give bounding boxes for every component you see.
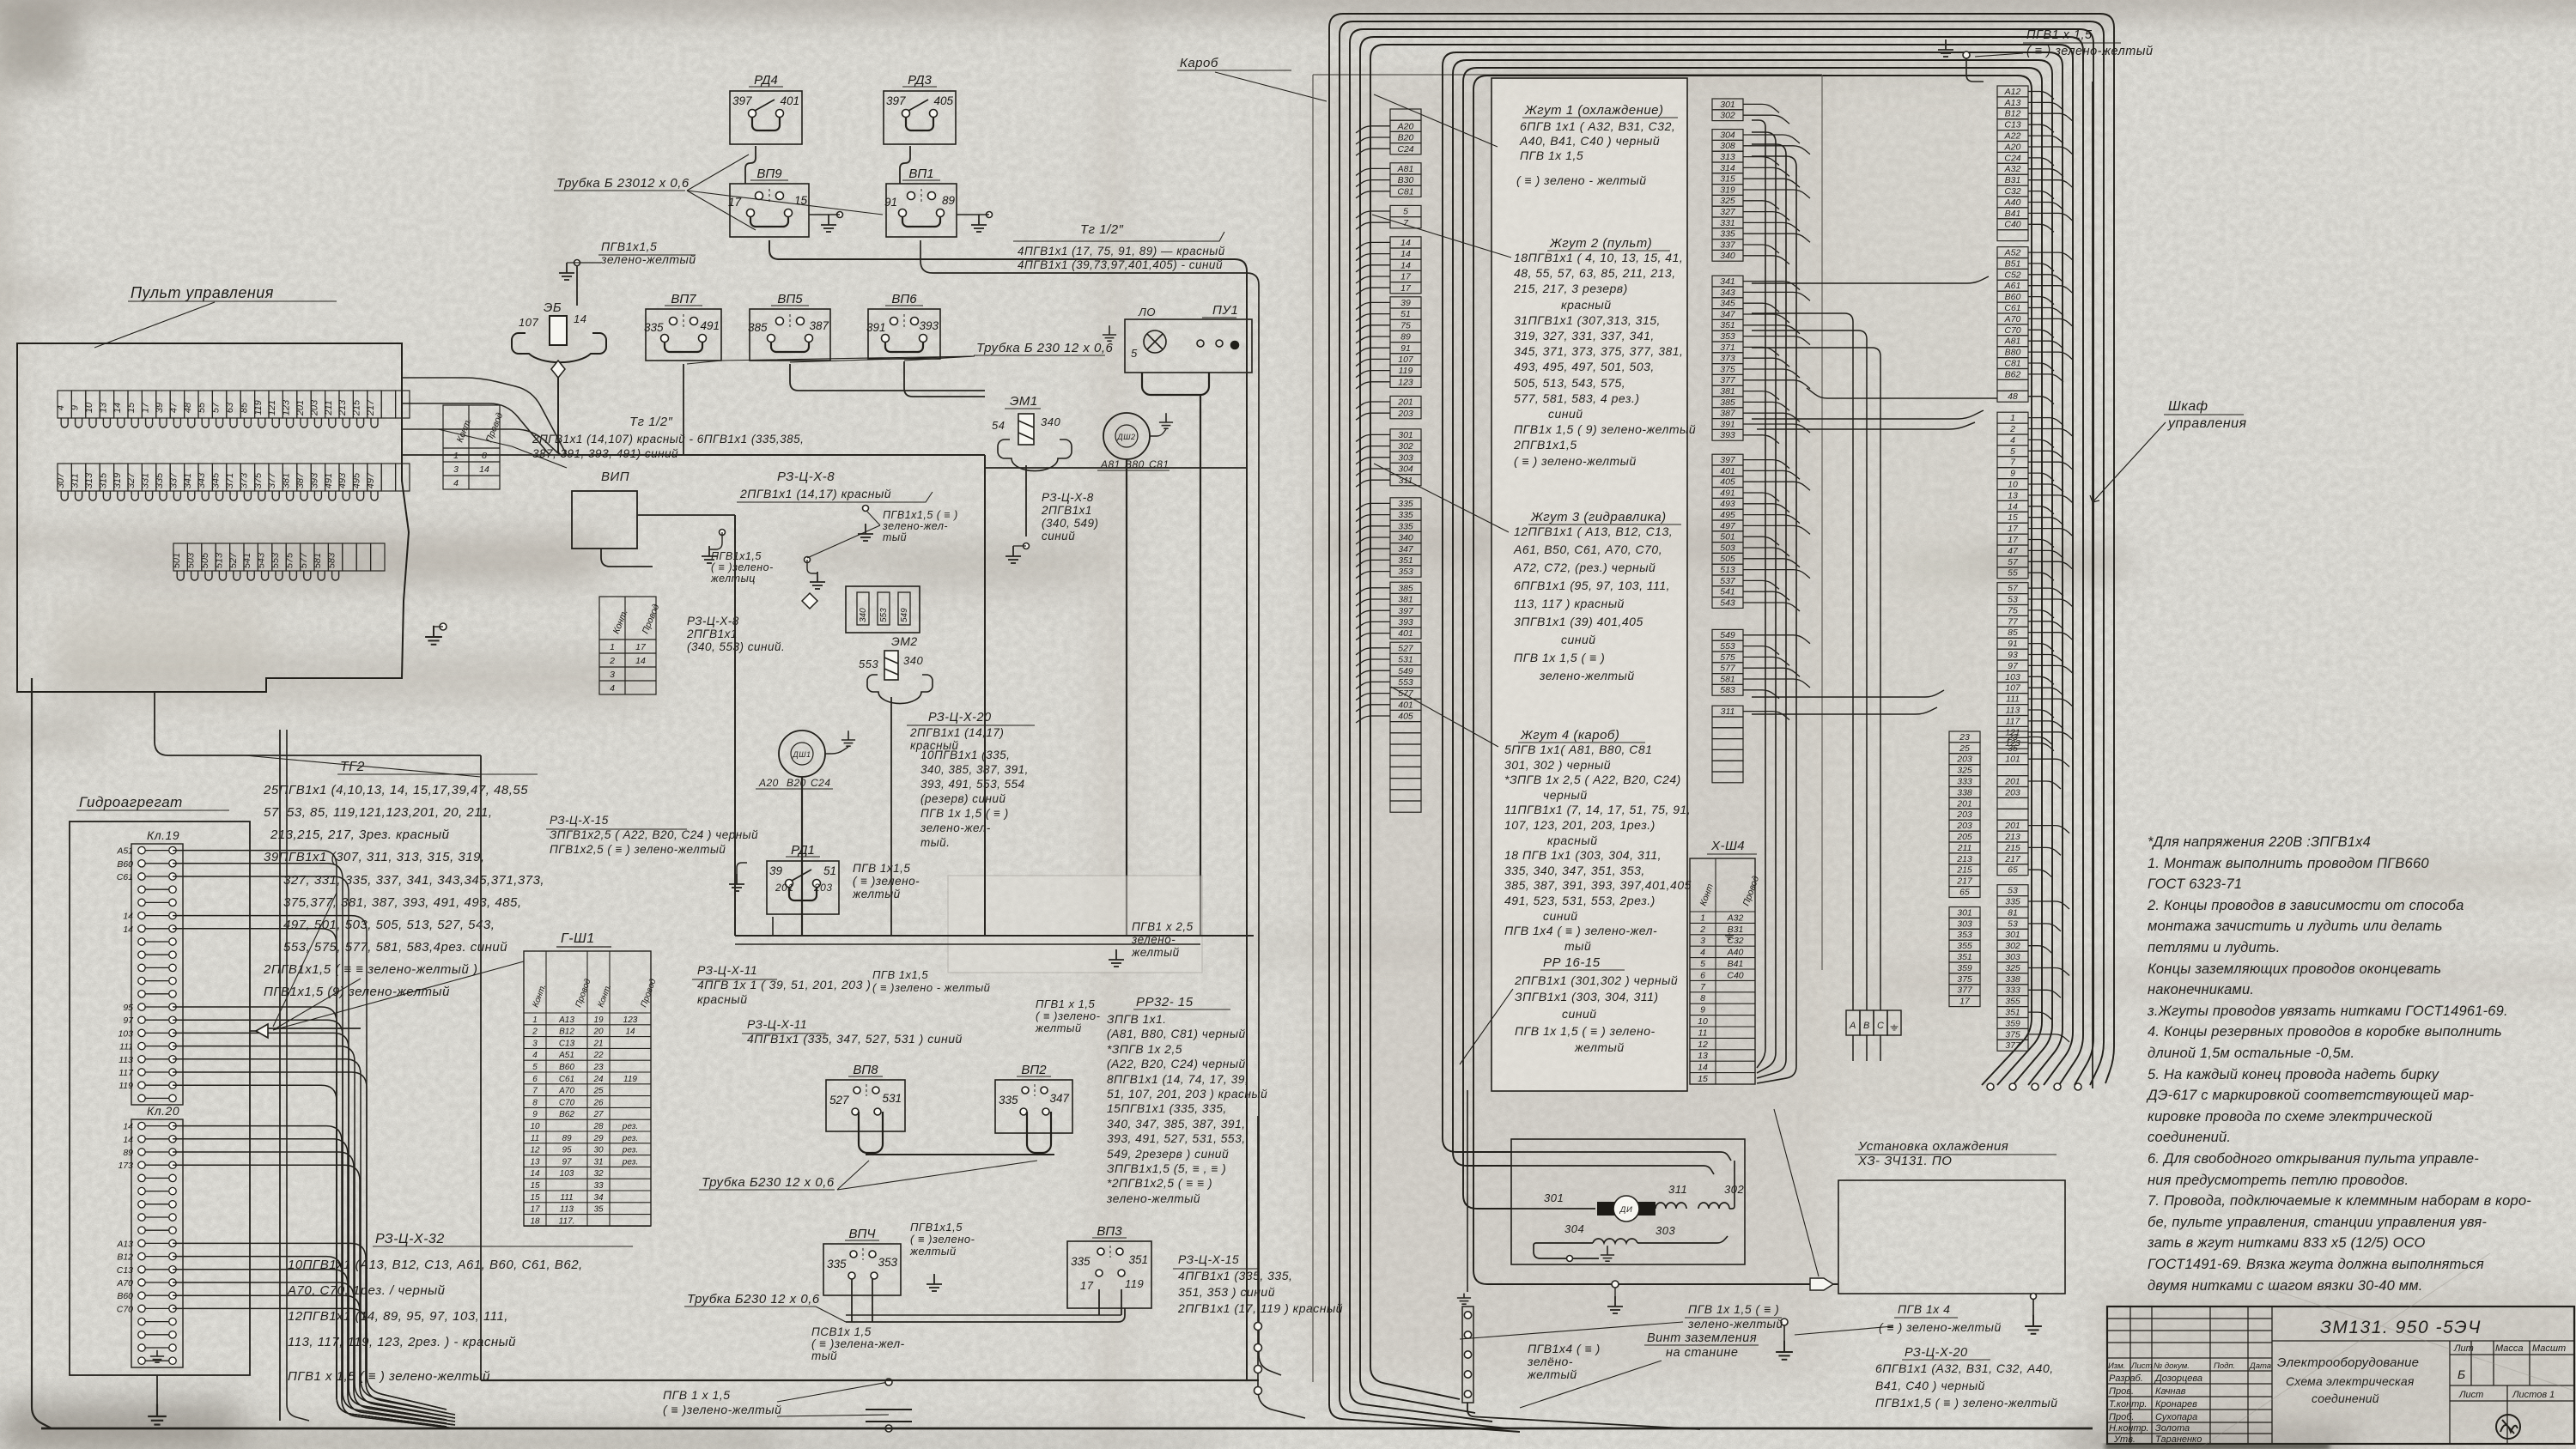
wire PU1 down xyxy=(1200,395,1201,936)
label Korob xyxy=(1177,56,1291,70)
svg-text:111: 111 xyxy=(560,1193,573,1203)
svg-text:С40: С40 xyxy=(1727,970,1743,980)
svg-text:Концы заземляющих проводов: Концы заземляющих проводов оконцевать xyxy=(2148,961,2441,977)
svg-text:345: 345 xyxy=(1720,299,1735,309)
svg-text:зелено-желтый: зелено-желтый xyxy=(1539,669,1635,682)
svg-text:201: 201 xyxy=(1956,798,1972,809)
text harness 4 xyxy=(1504,743,1692,953)
svg-text:23: 23 xyxy=(592,1063,604,1072)
svg-text:31ПГВ1х1 (307,313, 315,: 31ПГВ1х1 (307,313, 315, xyxy=(1514,313,1661,327)
leader Shkaf xyxy=(2090,422,2166,502)
svg-text:6ПГВ1х1 (95, 97, 103, 111,: 6ПГВ1х1 (95, 97, 103, 111, xyxy=(1514,579,1670,592)
svg-text:( ≡ )зелено-: ( ≡ )зелено- xyxy=(1036,1009,1101,1022)
svg-text:РД4: РД4 xyxy=(754,73,778,88)
wire bundle to chevron xyxy=(268,1028,361,1029)
svg-text:В51: В51 xyxy=(2005,258,2021,269)
svg-text:Б: Б xyxy=(2458,1367,2465,1381)
svg-text:ЗМ131. 950 -5ЭЧ: ЗМ131. 950 -5ЭЧ xyxy=(2320,1318,2482,1337)
svg-text:57, 53, 85, 119,121,123,201, 2: 57, 53, 85, 119,121,123,201, 20, 211, xyxy=(264,805,493,820)
ground xyxy=(2025,1315,2042,1334)
svg-text:РЗ-Ц-Х-11: РЗ-Ц-Х-11 xyxy=(697,963,757,977)
node EB gnd xyxy=(574,260,580,266)
svg-text:335: 335 xyxy=(827,1258,847,1270)
node xyxy=(720,530,726,536)
svg-text:327: 327 xyxy=(126,472,137,488)
svg-text:57: 57 xyxy=(2008,557,2019,567)
svg-text:3: 3 xyxy=(610,670,615,680)
svg-text:тый: тый xyxy=(883,531,907,543)
svg-text:203: 203 xyxy=(1956,755,1972,765)
svg-text:В31: В31 xyxy=(2005,175,2021,185)
hinge bottom curve xyxy=(1467,1403,1700,1429)
wire left vertical bus xyxy=(32,678,52,1428)
svg-text:25: 25 xyxy=(592,1087,604,1096)
svg-text:211: 211 xyxy=(1957,843,1972,853)
text R3C X8 xyxy=(739,487,891,500)
label Trubka B230 12x0.6 mid xyxy=(974,341,1114,355)
leader top right xyxy=(1975,53,2023,57)
svg-text:В60: В60 xyxy=(559,1063,574,1072)
terminal column korob right xyxy=(1712,99,1743,783)
vertical bundle right of korob column to X-Sh4 xyxy=(1752,120,1796,1083)
svg-text:2ПГВ1х1 (17, 119 ) красный: 2ПГВ1х1 (17, 119 ) красный xyxy=(1177,1301,1343,1315)
svg-text:377: 377 xyxy=(267,472,277,488)
svg-text:ВП2: ВП2 xyxy=(1021,1063,1047,1077)
svg-text:549: 549 xyxy=(900,608,909,622)
svg-text:ДШ2: ДШ2 xyxy=(1116,433,1135,441)
svg-text:54: 54 xyxy=(992,419,1005,432)
svg-text:307: 307 xyxy=(56,472,66,488)
svg-text:81: 81 xyxy=(2008,907,2018,918)
svg-text:33: 33 xyxy=(593,1181,604,1191)
svg-text:117: 117 xyxy=(2006,716,2021,726)
wire PU1 loop xyxy=(1142,373,1209,395)
svg-text:желтый: желтый xyxy=(909,1245,957,1258)
svg-text:15: 15 xyxy=(530,1181,540,1191)
svg-text:302: 302 xyxy=(1720,111,1735,121)
wire x560 down xyxy=(480,755,482,1380)
svg-text:12ПГВ1х1 (14, 89, 95, 9: 12ПГВ1х1 (14, 89, 95, 97, 103, 111, xyxy=(288,1309,508,1324)
svg-text:327, 331, 335, 337, 341, 343,3: 327, 331, 335, 337, 341, 343,345,371,373… xyxy=(283,873,544,888)
label Pult upravleniya xyxy=(128,284,337,301)
text block xyxy=(2146,834,2531,1294)
svg-text:405: 405 xyxy=(1398,712,1413,722)
svg-text:575: 575 xyxy=(1720,652,1735,663)
svg-text:10ПГВ1х1 (335,: 10ПГВ1х1 (335, xyxy=(920,749,1010,761)
text R3CX15 bottom xyxy=(1177,1252,1343,1315)
svg-text:ния предусмотреть петлю про: ния предусмотреть петлю проводов. xyxy=(2148,1173,2409,1188)
svg-text:304: 304 xyxy=(1398,464,1413,475)
svg-text:53: 53 xyxy=(2008,595,2018,605)
svg-text:75: 75 xyxy=(1400,320,1411,330)
svg-text:15: 15 xyxy=(1698,1074,1708,1084)
label R3-C-X-20 bottom xyxy=(1902,1346,1990,1360)
text block xyxy=(920,749,1029,849)
leader lines cluster xyxy=(807,512,880,558)
svg-text:23: 23 xyxy=(1959,732,1970,743)
svg-text:217: 217 xyxy=(2004,854,2021,864)
svg-text:401: 401 xyxy=(1398,700,1413,710)
text Tg mid xyxy=(532,433,804,460)
svg-text:333: 333 xyxy=(2005,985,2020,996)
svg-text:ПГВ 1х1,5: ПГВ 1х1,5 xyxy=(853,862,910,875)
title block frame xyxy=(2107,1307,2574,1444)
svg-text:203: 203 xyxy=(813,882,833,894)
svg-text:3: 3 xyxy=(532,1039,538,1048)
label TG2 xyxy=(337,760,538,774)
svg-text:*ЗПГВ 1х 2,5 ( А22, В20, С24): *ЗПГВ 1х 2,5 ( А22, В20, С24) xyxy=(1504,773,1681,786)
svg-text:495: 495 xyxy=(1720,510,1735,520)
node xyxy=(837,212,843,218)
svg-text:Дозорцева: Дозорцева xyxy=(2154,1373,2202,1384)
svg-text:В41: В41 xyxy=(2005,209,2021,219)
svg-text:А13: А13 xyxy=(558,1016,574,1025)
svg-text:(А22, В20, С24) черный: (А22, В20, С24) черный xyxy=(1107,1058,1246,1070)
svg-text:соединений.: соединений. xyxy=(2148,1130,2231,1145)
svg-text:С24: С24 xyxy=(2004,153,2020,163)
text harness 2 xyxy=(1513,251,1696,468)
svg-text:373: 373 xyxy=(1720,354,1735,364)
svg-text:491, 523, 531, 553, 2рез.): 491, 523, 531, 553, 2рез.) xyxy=(1504,894,1656,907)
svg-text:ПГВ1х 1,5 ( 9) зелено-желтый: ПГВ1х 1,5 ( 9) зелено-желтый xyxy=(1514,422,1696,436)
svg-text:205: 205 xyxy=(1956,832,1972,842)
svg-text:325: 325 xyxy=(1957,766,1972,776)
svg-text:381: 381 xyxy=(1398,595,1413,605)
hydro unit (Gidroagregat) outline xyxy=(70,822,250,1375)
text R3CX8 blue xyxy=(1041,491,1099,543)
crease diagonal over title area xyxy=(2198,1253,2574,1449)
ground xyxy=(927,1274,942,1291)
svg-text:13: 13 xyxy=(2008,490,2018,500)
label harness 2 xyxy=(1547,236,1670,251)
terminal strip Kl.20 xyxy=(131,1119,183,1367)
svg-text:С70: С70 xyxy=(559,1098,575,1107)
text block xyxy=(600,239,696,266)
svg-text:ПГВ 1х 1,5 ( ≡ ): ПГВ 1х 1,5 ( ≡ ) xyxy=(920,807,1009,820)
svg-text:ПГВ1х1,5 (9) зелено-желтый: ПГВ1х1,5 (9) зелено-желтый xyxy=(264,985,450,999)
wire DSh2 down xyxy=(1126,459,1127,936)
svg-text:ПГВ1х2,5 ( ≡ ) зелено-желтый: ПГВ1х2,5 ( ≡ ) зелено-желтый xyxy=(550,843,726,856)
text PGV zeleno-zheltyi 32 xyxy=(288,1369,490,1384)
svg-text:304: 304 xyxy=(1564,1222,1584,1235)
svg-text:89: 89 xyxy=(942,194,956,207)
node xyxy=(1567,1256,1573,1262)
text PGV cluster xyxy=(710,550,774,585)
wire y1345 under VP8-VP2 xyxy=(866,1154,1054,1155)
svg-text:2: 2 xyxy=(1699,925,1705,935)
terminal strip pult row 3 xyxy=(173,543,385,571)
svg-text:121: 121 xyxy=(267,400,277,415)
w xyxy=(737,863,747,874)
svg-text:А13: А13 xyxy=(2004,98,2021,108)
text block xyxy=(2277,1355,2419,1370)
svg-text:491: 491 xyxy=(700,319,720,332)
svg-text:В41: В41 xyxy=(1728,959,1744,969)
svg-text:53: 53 xyxy=(2008,886,2018,896)
svg-text:Кронарев: Кронарев xyxy=(2155,1399,2197,1410)
svg-text:А20: А20 xyxy=(2004,142,2021,152)
svg-text:Качнав: Качнав xyxy=(2155,1386,2186,1397)
svg-text:12: 12 xyxy=(1698,1040,1708,1050)
svg-text:20: 20 xyxy=(592,1028,604,1037)
svg-text:401: 401 xyxy=(1398,628,1413,639)
svg-text:493: 493 xyxy=(337,472,348,488)
svg-text:( ≡ )зелено-желтый: ( ≡ )зелено-желтый xyxy=(663,1403,781,1416)
svg-text:53: 53 xyxy=(2008,919,2018,929)
svg-text:А81: А81 xyxy=(1397,164,1414,174)
w xyxy=(1150,429,1166,436)
svg-text:63: 63 xyxy=(225,402,235,413)
svg-text:на станине: на станине xyxy=(1666,1346,1738,1360)
svg-text:Изм.: Изм. xyxy=(2108,1361,2125,1371)
text PGV mid1 xyxy=(882,509,958,543)
svg-text:зелено-желтый: зелено-желтый xyxy=(1106,1192,1200,1205)
svg-text:335: 335 xyxy=(644,321,664,334)
svg-text:39: 39 xyxy=(155,403,165,413)
svg-text:111: 111 xyxy=(119,1042,133,1052)
wire EM2 down xyxy=(890,697,892,730)
svg-text:549: 549 xyxy=(1720,630,1735,640)
svg-text:375,377, 381, 387, 393, 491, 4: 375,377, 381, 387, 393, 491, 493, 485, xyxy=(283,895,522,910)
svg-text:340: 340 xyxy=(1398,533,1413,543)
svg-text:2. Концы проводов в зависим: 2. Концы проводов в зависимости от спосо… xyxy=(2147,898,2464,913)
wire VIP down xyxy=(601,549,653,567)
svg-text:553: 553 xyxy=(1720,641,1735,652)
svg-text:397: 397 xyxy=(886,94,906,107)
indicator unit PU1 xyxy=(1125,319,1252,373)
motor DI with brushes xyxy=(1597,1202,1616,1216)
svg-text:497: 497 xyxy=(1720,521,1736,531)
svg-text:353: 353 xyxy=(1398,567,1413,577)
svg-text:14: 14 xyxy=(1400,249,1411,259)
svg-text:2ПГВ1х1 (301,302 ) черный: 2ПГВ1х1 (301,302 ) черный xyxy=(1514,973,1678,987)
svg-text:ПГВ 1х 1,5 ( ≡ ): ПГВ 1х 1,5 ( ≡ ) xyxy=(1688,1302,1779,1316)
svg-text:583: 583 xyxy=(327,552,337,568)
hinge node xyxy=(1464,1331,1471,1338)
svg-text:385, 387, 391, 393, 397,401,40: 385, 387, 391, 393, 397,401,405 xyxy=(1504,878,1692,892)
svg-text:14: 14 xyxy=(2008,501,2018,512)
svg-text:4ПГВ1х1 (335, 335,: 4ПГВ1х1 (335, 335, xyxy=(1178,1269,1292,1282)
svg-text:1: 1 xyxy=(610,642,615,652)
svg-text:303: 303 xyxy=(1656,1224,1675,1237)
wire x1147 down xyxy=(984,455,986,936)
switch VP6 xyxy=(868,309,940,359)
svg-text:А40: А40 xyxy=(1727,948,1744,958)
svg-text:311: 311 xyxy=(1721,706,1735,717)
wire EB to mid xyxy=(567,454,985,456)
w xyxy=(1614,1288,1616,1300)
svg-text:ЗПГВ1х2,5 ( А22, В20, С24 ) че: ЗПГВ1х2,5 ( А22, В20, С24 ) черный xyxy=(550,828,758,841)
wire EB down xyxy=(576,266,578,306)
svg-text:335, 340, 347, 351, 353,: 335, 340, 347, 351, 353, xyxy=(1504,864,1645,877)
svg-text:353: 353 xyxy=(878,1256,897,1269)
svg-text:РЗ-Ц-Х-8: РЗ-Ц-Х-8 xyxy=(1042,491,1094,504)
svg-text:201: 201 xyxy=(295,400,306,416)
terminal column cabinet lower xyxy=(1997,731,2028,1051)
svg-text:Тараненко: Тараненко xyxy=(2155,1434,2202,1445)
text PGV 1.5 bottom xyxy=(1687,1302,1783,1331)
svg-text:4: 4 xyxy=(2010,435,2015,446)
svg-text:401: 401 xyxy=(780,94,799,107)
svg-text:39: 39 xyxy=(1400,298,1411,308)
svg-text:541: 541 xyxy=(242,553,252,568)
svg-text:С81: С81 xyxy=(2004,359,2020,369)
svg-text:213: 213 xyxy=(1956,854,1972,864)
svg-text:ЛО: ЛО xyxy=(1138,306,1156,318)
svg-text:17: 17 xyxy=(1080,1279,1094,1292)
svg-text:4: 4 xyxy=(1700,948,1705,958)
svg-text:6. Для свободного открывания: 6. Для свободного открывания пульта упра… xyxy=(2148,1151,2479,1167)
svg-text:14: 14 xyxy=(123,1135,133,1145)
svg-text:553, 575, 577, 581, 583,4рез.: 553, 575, 577, 581, 583,4рез. синий xyxy=(283,940,507,955)
svg-text:581: 581 xyxy=(1720,674,1735,684)
svg-text:19: 19 xyxy=(593,1016,604,1025)
svg-text:ПГВ1х1,5 ( ≡ ): ПГВ1х1,5 ( ≡ ) xyxy=(883,509,958,521)
wire EM2 to y1090 xyxy=(890,730,892,936)
text zeleno right xyxy=(1879,1320,2002,1334)
svg-text:335: 335 xyxy=(1398,510,1413,520)
svg-text:351: 351 xyxy=(1957,952,1972,962)
svg-text:325: 325 xyxy=(2005,963,2020,973)
motor DSh1 xyxy=(779,731,825,777)
svg-text:65: 65 xyxy=(2008,865,2018,876)
svg-text:Кл.19: Кл.19 xyxy=(147,828,179,842)
hinge node left xyxy=(1255,1323,1262,1331)
svg-text:113, 117, 119, 123, 2рез. ) -: 113, 117, 119, 123, 2рез. ) - красный xyxy=(288,1335,516,1349)
label RR16-15 xyxy=(1540,955,1625,970)
svg-text:ЗПГВ1х1,5 (5, ≡ , ≡ ): ЗПГВ1х1,5 (5, ≡ , ≡ ) xyxy=(1107,1162,1226,1175)
svg-text:красный: красный xyxy=(1561,298,1611,312)
svg-text:Трубка Б230 12 х 0,6: Трубка Б230 12 х 0,6 xyxy=(687,1292,820,1307)
svg-text:14: 14 xyxy=(123,912,133,922)
svg-text:497, 501, 503, 505, 513, 527,: 497, 501, 503, 505, 513, 527, 543, xyxy=(283,918,495,932)
svg-text:( ≡ ) зелено-желтый: ( ≡ ) зелено-желтый xyxy=(1514,454,1637,468)
svg-text:338: 338 xyxy=(2005,974,2020,985)
leader RR16-15 xyxy=(1460,989,1513,1064)
svg-text:303: 303 xyxy=(1957,919,1972,929)
switch VP3 xyxy=(1067,1241,1151,1308)
svg-text:371: 371 xyxy=(1720,343,1735,353)
svg-text:В31: В31 xyxy=(1728,925,1744,935)
svg-text:С13: С13 xyxy=(117,1265,133,1276)
svg-text:А12: А12 xyxy=(2004,87,2021,97)
text PGV 2.5 xyxy=(1131,920,1194,959)
svg-text:ПГВ1х4 ( ≡ ): ПГВ1х4 ( ≡ ) xyxy=(1528,1342,1601,1355)
svg-text:5: 5 xyxy=(532,1063,538,1072)
node xyxy=(2032,1083,2038,1090)
svg-text:ПГВ1 х 1,5: ПГВ1 х 1,5 xyxy=(2026,28,2093,42)
svg-text:Пульт управления: Пульт управления xyxy=(131,284,274,301)
svg-text:10: 10 xyxy=(2008,480,2018,490)
svg-text:ВПЧ: ВПЧ xyxy=(849,1227,877,1241)
leader TG2 xyxy=(245,755,481,777)
svg-text:495: 495 xyxy=(352,472,362,488)
svg-text:501: 501 xyxy=(1720,532,1735,543)
svg-text:Установка охлаждения: Установка охлаждения xyxy=(1857,1139,2008,1154)
title block small header xyxy=(2108,1361,2271,1445)
svg-text:107, 123, 201, 203, 1рез.): 107, 123, 201, 203, 1рез.) xyxy=(1504,818,1656,832)
label RR32-15 xyxy=(1133,995,1230,1009)
svg-text:Винт заземления: Винт заземления xyxy=(1647,1331,1757,1345)
svg-text:черный: черный xyxy=(1543,788,1588,802)
svg-text:375: 375 xyxy=(2005,1029,2020,1040)
hinge node left xyxy=(1255,1387,1262,1395)
svg-text:наконечниками.: наконечниками. xyxy=(2148,982,2254,997)
svg-text:119: 119 xyxy=(118,1081,133,1091)
ABC terminal box xyxy=(1846,1010,1901,1035)
wire pult down 2 xyxy=(287,730,309,1421)
svg-text:14: 14 xyxy=(635,656,646,666)
svg-text:505: 505 xyxy=(200,552,210,568)
ground xyxy=(971,215,987,232)
svg-text:393: 393 xyxy=(1398,617,1413,627)
svg-text:113, 117 ) красный: 113, 117 ) красный xyxy=(1514,597,1625,610)
label harness 4 xyxy=(1518,728,1645,743)
svg-text:Дата: Дата xyxy=(2249,1361,2271,1371)
w xyxy=(807,560,817,573)
svg-text:А22: А22 xyxy=(2004,131,2021,142)
svg-text:123: 123 xyxy=(623,1016,638,1025)
svg-text:5: 5 xyxy=(1700,959,1705,969)
svg-text:581: 581 xyxy=(313,553,323,568)
svg-text:302: 302 xyxy=(2005,941,2020,951)
svg-text:желтый: желтый xyxy=(1035,1022,1082,1034)
svg-text:(340, 553) синий.: (340, 553) синий. xyxy=(687,640,785,653)
svg-text:А70, С70, 1рез. / черный: А70, С70, 1рез. / черный xyxy=(287,1283,446,1298)
svg-text:Трубка Б 23012 х 0,6: Трубка Б 23012 х 0,6 xyxy=(556,176,690,191)
svg-text:3: 3 xyxy=(1700,936,1705,946)
svg-text:ДИ: ДИ xyxy=(1619,1205,1633,1215)
stub wires korob right column xyxy=(1743,104,1810,719)
node xyxy=(1987,1083,1994,1090)
svg-text:304: 304 xyxy=(1720,130,1735,140)
svg-text:359: 359 xyxy=(1957,963,1972,973)
wire RD4 down xyxy=(745,146,756,184)
svg-text:335: 335 xyxy=(2005,897,2020,907)
svg-text:14: 14 xyxy=(574,312,586,325)
switch VP7 xyxy=(646,309,721,361)
svg-text:12ПГВ1х1 ( А13, В12, С13,: 12ПГВ1х1 ( А13, В12, С13, xyxy=(1514,524,1673,538)
wire right outer vertical xyxy=(2092,82,2093,1088)
svg-text:РЗ-Ц-Х-20: РЗ-Ц-Х-20 xyxy=(928,711,992,724)
svg-text:201: 201 xyxy=(1397,397,1413,408)
svg-text:желтый: желтый xyxy=(1527,1367,1577,1381)
svg-text:РЗ-Ц-Х-32: РЗ-Ц-Х-32 xyxy=(375,1232,445,1246)
text PGV 1x4 right xyxy=(1898,1302,1950,1316)
w xyxy=(1013,545,1026,547)
hinge node left xyxy=(1255,1344,1262,1352)
svg-text:47: 47 xyxy=(168,402,179,413)
svg-text:113: 113 xyxy=(118,1055,133,1065)
svg-text:зелено-жел-: зелено-жел- xyxy=(882,520,948,532)
text PGV x11 xyxy=(872,968,990,994)
svg-text:335: 335 xyxy=(1398,521,1413,531)
svg-text:491: 491 xyxy=(324,473,334,488)
svg-text:( ≡ ) зелено-желтый: ( ≡ ) зелено-желтый xyxy=(2026,45,2154,58)
svg-text:373: 373 xyxy=(239,472,249,488)
switch VP8 xyxy=(826,1080,905,1131)
text RR32-15 xyxy=(1106,1013,1267,1205)
svg-text:В80: В80 xyxy=(1125,458,1145,470)
diamond connector xyxy=(802,593,817,609)
svg-text:34: 34 xyxy=(593,1193,604,1203)
svg-text:С32: С32 xyxy=(2004,186,2020,197)
svg-text:377: 377 xyxy=(1957,985,1973,996)
svg-text:527: 527 xyxy=(829,1094,849,1106)
wire VP1 gnd xyxy=(957,214,989,215)
svg-text:В62: В62 xyxy=(2005,369,2021,379)
svg-text:А20: А20 xyxy=(1397,121,1414,131)
